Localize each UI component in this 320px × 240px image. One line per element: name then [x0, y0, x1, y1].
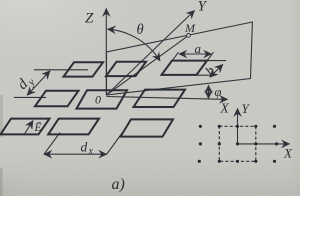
lattice dots bottom row	[198, 160, 276, 163]
b dimension arrow	[210, 64, 223, 77]
d_x dimension arrow	[44, 153, 107, 155]
array element row2 col3	[134, 90, 186, 107]
ray OM	[107, 35, 189, 95]
svg-text:x: x	[88, 146, 94, 157]
d_y dimension arrow	[27, 71, 50, 95]
array element row1 col1	[64, 62, 104, 76]
theta arc	[108, 29, 160, 61]
array elements (thick parallelograms)	[1, 61, 208, 137]
Z axis	[105, 9, 107, 96]
left edge scan smudge	[0, 95, 3, 137]
array element row2 col1	[35, 91, 79, 107]
a dimension left witness line	[172, 52, 179, 61]
array element row3 col3	[121, 119, 174, 136]
array element row2 col2 (origin element)	[77, 90, 128, 108]
paper background	[0, 0, 300, 196]
svg-text:X: X	[220, 101, 230, 116]
lattice dots top row	[199, 125, 276, 128]
svg-text:θ: θ	[137, 22, 144, 38]
svg-text:d: d	[81, 140, 88, 155]
svg-text:Ē: Ē	[34, 121, 42, 134]
svg-text:φ: φ	[215, 85, 222, 99]
lattice dots middle row	[199, 142, 278, 145]
b dimension lower witness line	[197, 74, 215, 76]
svg-text:a: a	[195, 41, 202, 56]
inset X axis	[238, 143, 290, 145]
row2 midline leader	[14, 96, 46, 98]
svg-text:M: M	[184, 21, 196, 35]
svg-text:0: 0	[95, 93, 101, 107]
array element row1 col2	[106, 62, 146, 76]
phi double arrow	[208, 85, 210, 98]
svg-text:Z: Z	[85, 11, 94, 27]
svg-text:а): а)	[112, 176, 125, 193]
dashed square	[219, 126, 256, 161]
a dimension right witness line	[207, 52, 214, 61]
M point circle	[187, 34, 191, 38]
row1 midline leader	[34, 69, 88, 71]
X axis	[107, 97, 228, 100]
a dimension arrow	[179, 53, 212, 55]
sheet plane through origin (thin quadrilateral)	[107, 22, 253, 95]
d_x right witness line	[107, 133, 123, 155]
b dimension upper witness line	[208, 60, 227, 62]
label dimension d_y	[15, 72, 38, 95]
array element row3 col2	[48, 119, 99, 135]
array element row1 col3	[162, 61, 208, 75]
E vector arrow	[25, 121, 33, 134]
svg-text:X: X	[283, 146, 293, 161]
array element row3 col1	[1, 119, 50, 135]
label dimension d_x	[81, 140, 94, 157]
Y axis	[107, 11, 195, 96]
inset Y axis	[237, 109, 239, 144]
d_x left witness line	[44, 133, 60, 155]
